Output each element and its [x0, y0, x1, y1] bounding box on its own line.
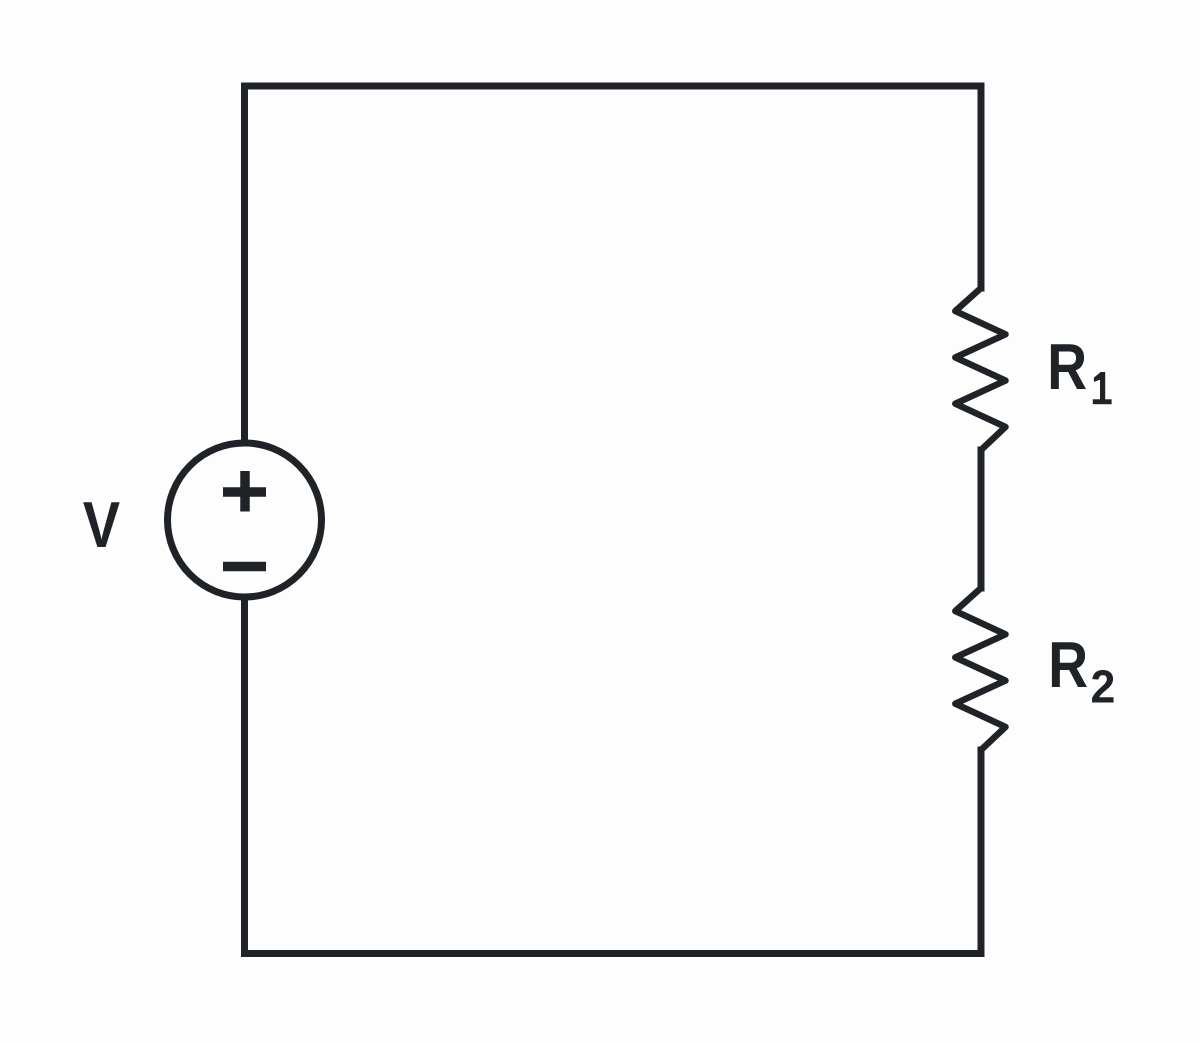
voltage source plus sign	[223, 471, 266, 512]
wire right vertical middle (R1 to R2)	[978, 450, 985, 588]
label V	[83, 502, 120, 547]
label R2 subscript 2	[1092, 670, 1113, 702]
wire right vertical lower (R2 to bottom wire)	[978, 750, 985, 954]
resistor R1 zigzag	[955, 288, 1005, 450]
wire right vertical upper (top wire to R1)	[978, 86, 985, 288]
wire left vertical upper (top wire to V source)	[241, 86, 248, 443]
wire bottom horizontal	[245, 950, 982, 957]
label R1 subscript 1	[1093, 372, 1112, 404]
resistor R2 zigzag	[955, 588, 1005, 750]
wire left vertical lower (V source to bottom wire)	[241, 597, 248, 954]
label R2	[1052, 642, 1087, 687]
voltage source minus sign	[223, 562, 266, 572]
label R1	[1051, 344, 1086, 389]
voltage source V1 circle	[168, 443, 322, 597]
wire top horizontal	[245, 83, 982, 90]
